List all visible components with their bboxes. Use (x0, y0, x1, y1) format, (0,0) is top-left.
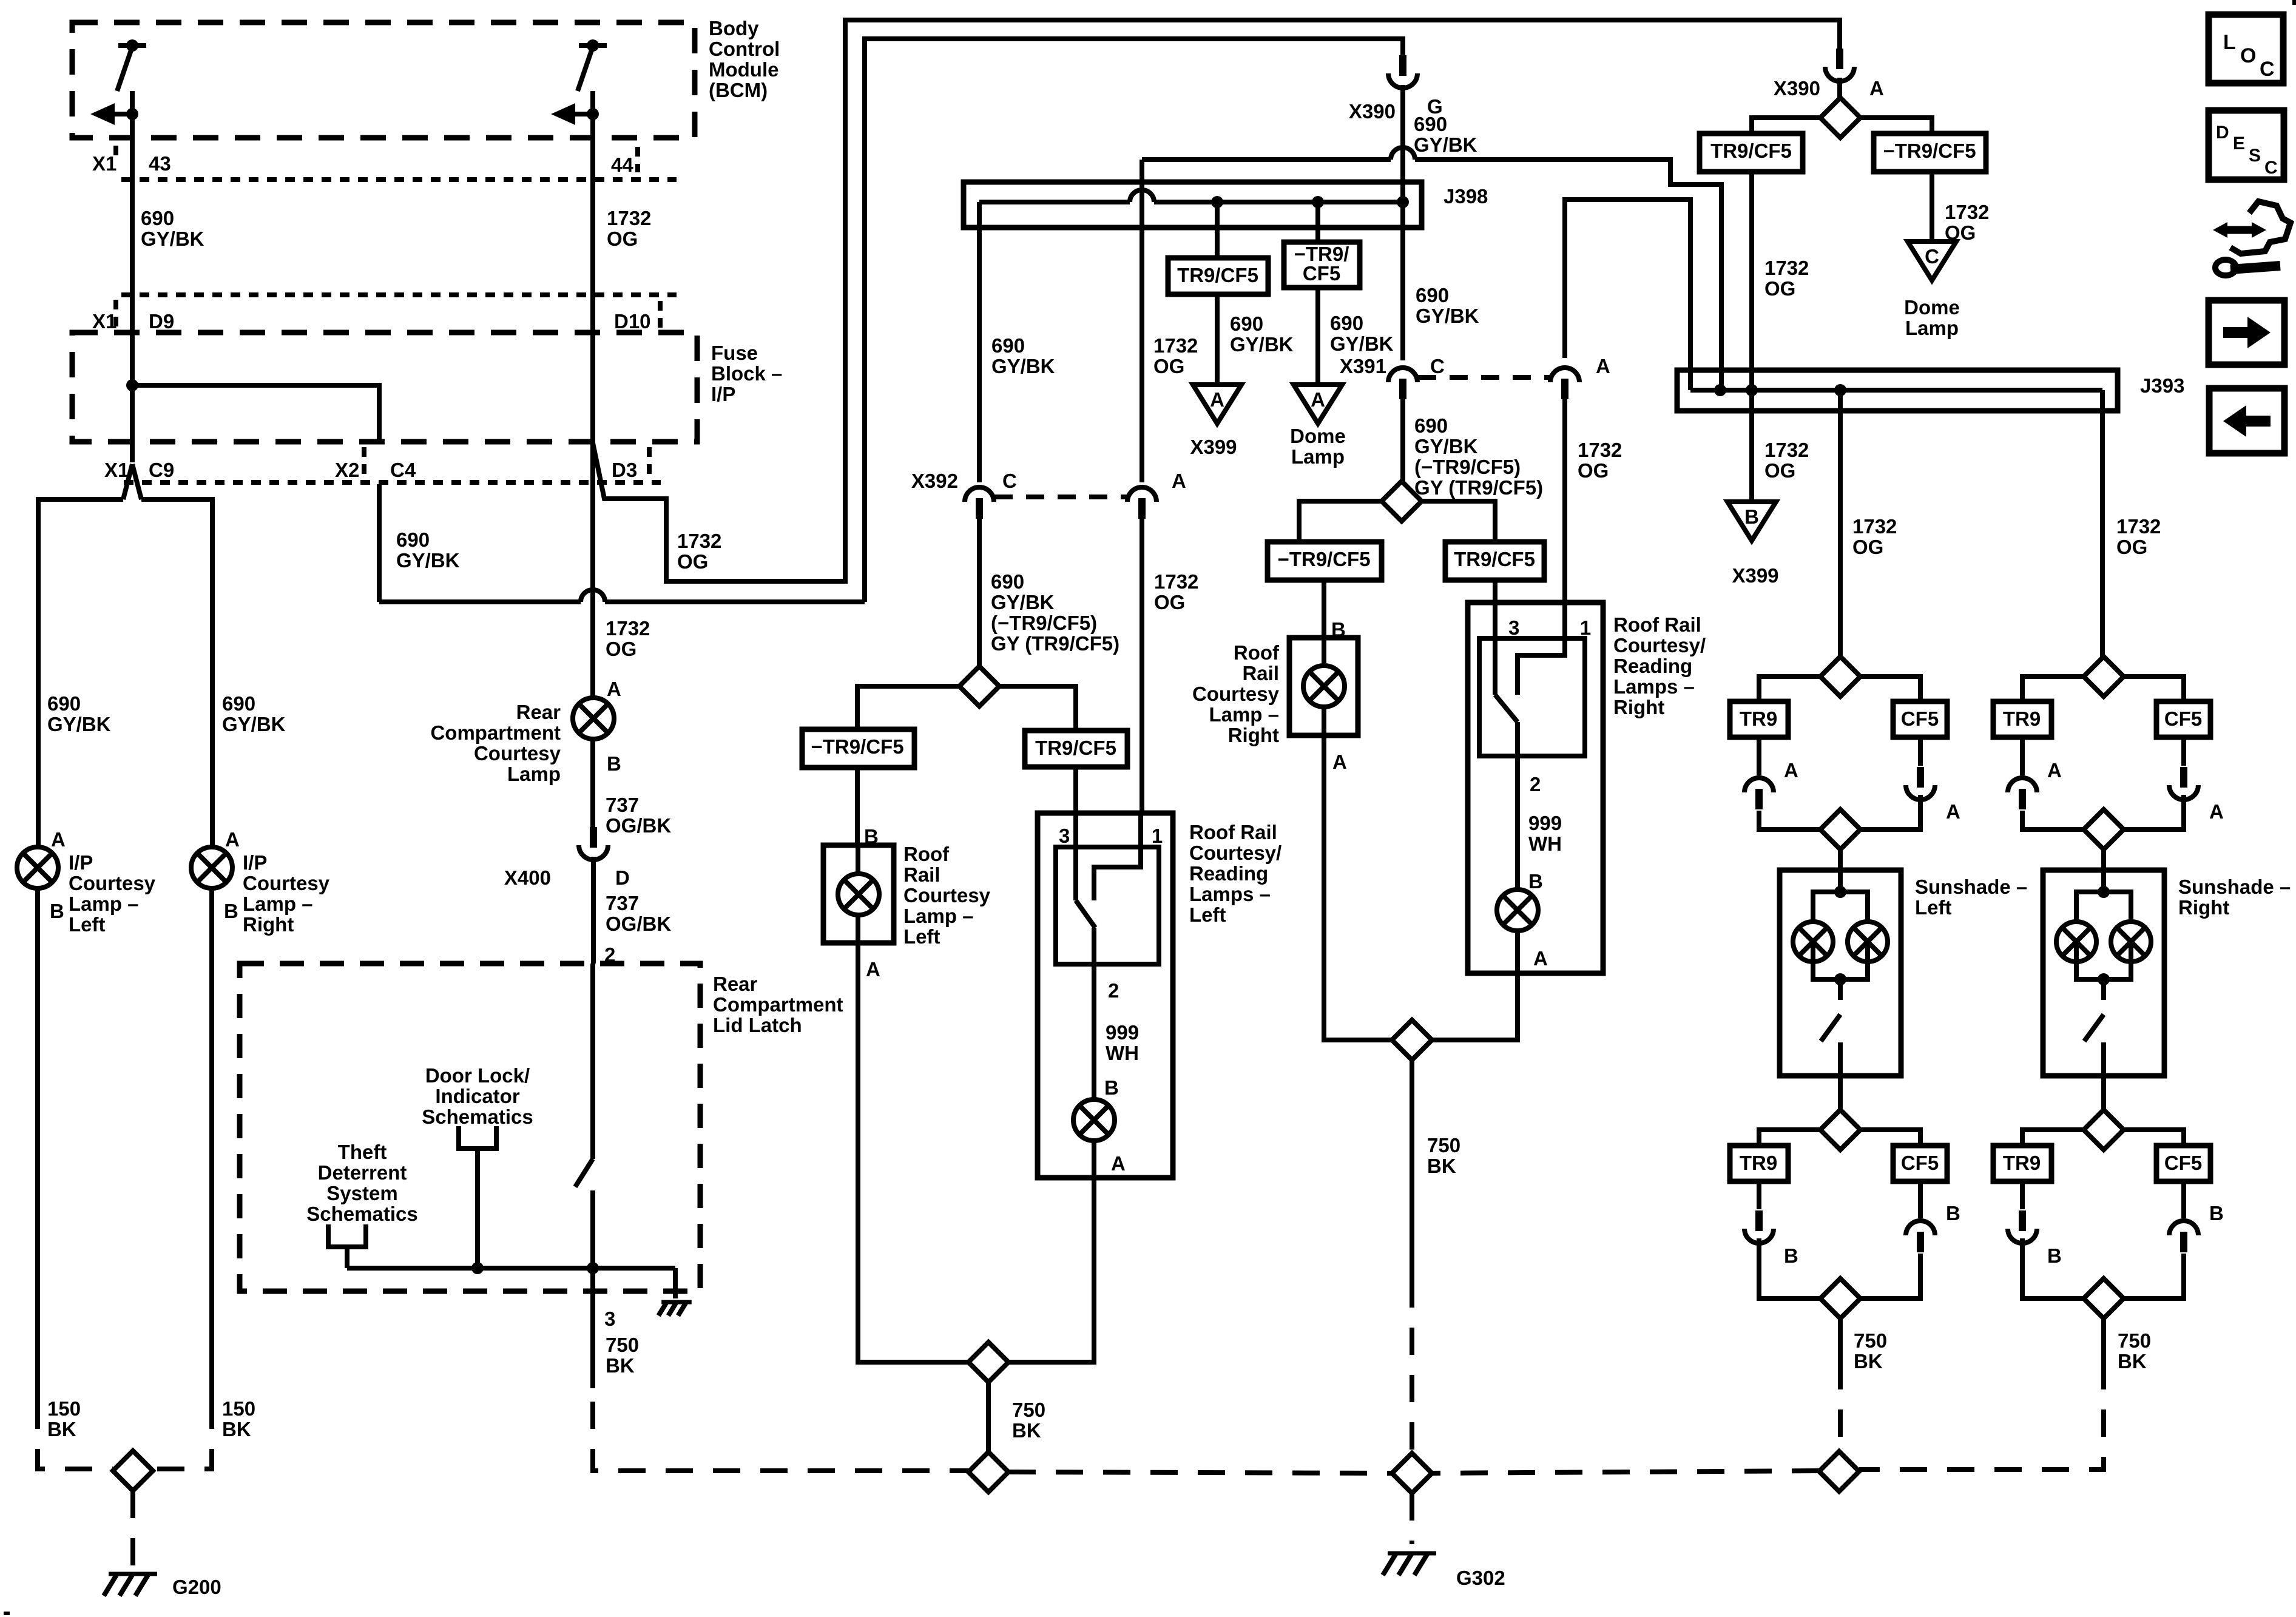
svg-text:OG: OG (1764, 277, 1795, 300)
inner switch box right (1479, 638, 1585, 756)
svg-text:750: 750 (1012, 1399, 1045, 1421)
wire 690 GY/BK BCM 43 to fuse block (130, 146, 135, 333)
TR9/CF5 drop from J398 (1215, 202, 1220, 258)
wire -TR9/CF5 to roof rail courtesy lamp right (1322, 580, 1326, 638)
splice diamond above sunshade left (1820, 809, 1860, 849)
pin wires into box (1493, 580, 1497, 603)
switch blade left box (1076, 900, 1095, 928)
svg-text:A: A (1172, 470, 1186, 492)
svg-text:L: L (2223, 31, 2236, 54)
svg-text:TR9/CF5: TR9/CF5 (1035, 737, 1116, 759)
svg-text:Rear: Rear (516, 701, 561, 723)
svg-text:GY/BK: GY/BK (1330, 333, 1394, 355)
svg-text:1732: 1732 (1764, 439, 1809, 461)
svg-text:O: O (2240, 44, 2256, 67)
D3 branch 1732 OG to X390 A riser (593, 20, 1840, 581)
Roof Rail Courtesy/Reading Lamps - Left box (1038, 813, 1173, 1178)
connector X390 G (1399, 55, 1406, 76)
X392 A wire 1732 OG down to reading lamps pin 1 (1140, 519, 1144, 813)
lid latch switch wire (590, 964, 595, 1159)
off-page triangle C dome lamp (1908, 241, 1956, 280)
svg-text:B: B (224, 900, 238, 922)
svg-text:Courtesy: Courtesy (903, 884, 991, 906)
svg-text:A: A (1784, 759, 1798, 781)
svg-text:CF5: CF5 (1901, 1152, 1939, 1174)
svg-text:B: B (2047, 1244, 2062, 1267)
J393 drop to sunshade left (1838, 390, 1843, 657)
lamp output wire (1092, 928, 1096, 1099)
svg-text:Schematics: Schematics (306, 1203, 417, 1225)
connector X400 (590, 827, 597, 848)
connector under TR9 right (2020, 737, 2025, 775)
svg-text:Control: Control (709, 38, 780, 60)
splice diamond sunshade left top (1820, 657, 1860, 697)
svg-text:B: B (1744, 505, 1759, 528)
svg-text:BK: BK (47, 1418, 76, 1440)
connector under TR9 left (1757, 737, 1761, 775)
svg-text:D: D (615, 866, 630, 889)
wire C4 690 GY/BK down and right (377, 484, 382, 602)
svg-text:1: 1 (1580, 616, 1591, 639)
svg-text:690: 690 (47, 692, 81, 715)
connector under lower CF5 left (1918, 1181, 1923, 1218)
svg-text:B: B (1104, 1076, 1119, 1099)
svg-text:BK: BK (222, 1418, 251, 1440)
wire TR9/CF5 down to reading lamps pin 3 (1073, 767, 1078, 813)
svg-text:Right: Right (2178, 896, 2229, 919)
splice diamond left circuit (959, 666, 999, 706)
svg-text:GY/BK: GY/BK (1414, 435, 1478, 457)
svg-text:TR9: TR9 (1740, 1152, 1777, 1174)
Roof Rail Courtesy/Reading Lamps - Right box (1468, 603, 1603, 973)
branch to -TR9/CF5 (1860, 118, 1932, 133)
lamp roof rail reading right (1497, 890, 1538, 931)
svg-text:OG: OG (2116, 536, 2147, 558)
fuse block internal wire D10 to D3 (590, 333, 595, 442)
svg-text:A: A (1946, 800, 1960, 823)
svg-text:Schematics: Schematics (422, 1106, 533, 1128)
svg-text:C: C (2260, 58, 2275, 81)
-TR9/CF5 box (left circuit) (802, 729, 914, 768)
svg-text:1732: 1732 (1945, 201, 1989, 223)
svg-text:Lid Latch: Lid Latch (713, 1014, 802, 1036)
connector under lower TR9 left (1757, 1181, 1761, 1209)
svg-text:44: 44 (611, 154, 633, 176)
svg-text:GY/BK: GY/BK (396, 549, 460, 572)
svg-text:CF5: CF5 (2164, 1152, 2202, 1174)
splice diamond sunshade right top (2084, 657, 2124, 697)
wire down to splice diamond right (1432, 973, 1518, 1040)
svg-text:Compartment: Compartment (430, 721, 561, 744)
svg-text:Lamps –: Lamps – (1189, 883, 1271, 905)
svg-text:GY (TR9/CF5): GY (TR9/CF5) (991, 632, 1119, 655)
connector under CF5 left (1918, 737, 1923, 766)
svg-text:A: A (1596, 355, 1610, 377)
CF5 box sunshade right (2156, 701, 2210, 737)
svg-text:OG: OG (677, 550, 708, 573)
svg-text:C: C (1002, 470, 1017, 492)
theft deterrent bracket (328, 1224, 366, 1247)
Body Control Module (BCM) dashed box (72, 22, 695, 138)
svg-text:1732: 1732 (677, 530, 721, 552)
svg-text:B: B (1528, 870, 1543, 893)
svg-text:1732: 1732 (2116, 515, 2161, 538)
Sunshade - Left box (1780, 870, 1901, 1076)
svg-text:X392: X392 (911, 470, 958, 492)
svg-text:Theft: Theft (338, 1141, 387, 1163)
dashed grounds to G200 (38, 1402, 113, 1469)
dashed bus between sunshade diamonds (1432, 1471, 1819, 1473)
ground bus diamond sunshade left (1819, 1451, 1859, 1491)
svg-text:A: A (2209, 800, 2224, 823)
svg-text:Block –: Block – (711, 362, 782, 385)
svg-text:A: A (1311, 388, 1325, 411)
svg-text:TR9/CF5: TR9/CF5 (1177, 264, 1258, 286)
Fuse Block - I/P dashed box (72, 333, 697, 442)
svg-text:C9: C9 (149, 459, 174, 481)
svg-text:1732: 1732 (1764, 257, 1809, 279)
svg-text:1732: 1732 (606, 617, 650, 640)
svg-text:Rear: Rear (713, 973, 758, 995)
svg-text:A: A (607, 678, 621, 700)
svg-text:Right: Right (1228, 724, 1279, 746)
svg-text:J398: J398 (1443, 185, 1488, 208)
svg-text:System: System (326, 1182, 397, 1204)
lamp rear compartment courtesy (573, 698, 614, 739)
svg-text:Courtesy/: Courtesy/ (1613, 634, 1706, 657)
svg-text:1732: 1732 (607, 207, 651, 229)
X392 dashed link (994, 495, 1127, 499)
svg-text:1732: 1732 (1578, 439, 1622, 461)
svg-text:690: 690 (222, 692, 255, 715)
TR9 box lower left (1730, 1146, 1788, 1181)
svg-text:750: 750 (606, 1334, 639, 1356)
svg-text:Left: Left (1189, 903, 1226, 926)
splice diamond right circuit (1382, 481, 1422, 521)
svg-text:C: C (1925, 245, 1939, 268)
svg-text:43: 43 (149, 152, 171, 175)
svg-text:690: 690 (1416, 284, 1449, 306)
svg-text:Lamp –: Lamp – (1209, 703, 1279, 726)
J398 splice pack box (964, 182, 1422, 228)
svg-text:Reading: Reading (1189, 862, 1268, 885)
svg-text:B: B (50, 900, 64, 922)
svg-text:X390: X390 (1349, 100, 1396, 123)
svg-text:1732: 1732 (1153, 334, 1198, 357)
svg-text:−TR9/CF5: −TR9/CF5 (1883, 140, 1976, 162)
svg-text:150: 150 (222, 1397, 255, 1420)
sunshade right switch blade (2084, 1014, 2104, 1041)
svg-text:Lamp –: Lamp – (69, 893, 139, 915)
TR9/CF5 box (top right) (1700, 133, 1803, 172)
LOC sidebar box (2209, 15, 2283, 83)
svg-text:Left: Left (69, 913, 106, 936)
svg-text:690: 690 (991, 334, 1025, 357)
svg-text:X391: X391 (1340, 355, 1386, 377)
svg-text:BK: BK (606, 1354, 635, 1377)
off-page triangle A dome lamp (1294, 385, 1342, 424)
svg-text:Body: Body (709, 17, 759, 39)
svg-text:Courtesy: Courtesy (474, 742, 561, 765)
wire lamp A down to splice (1324, 735, 1392, 1040)
arrow into BCM S1 (112, 112, 132, 116)
svg-text:Reading: Reading (1613, 655, 1692, 677)
svg-text:750: 750 (1854, 1329, 1887, 1352)
svg-text:BK: BK (2118, 1350, 2147, 1372)
svg-text:GY/BK: GY/BK (141, 228, 204, 250)
TR9/CF5 box (right circuit) (1445, 542, 1544, 580)
branch to TR9/CF5 (left) (999, 686, 1076, 731)
svg-text:Module: Module (709, 58, 778, 81)
svg-text:OG: OG (1578, 459, 1609, 482)
connector under lower TR9 right (2020, 1181, 2025, 1209)
J398 bus line (979, 200, 1130, 204)
svg-text:Fuse: Fuse (711, 342, 758, 364)
dashed drop to ground bus (593, 1402, 968, 1471)
svg-text:Roof: Roof (1234, 641, 1280, 664)
svg-text:TR9: TR9 (2003, 707, 2041, 730)
splice diamond 750 BK sunshade left (1820, 1278, 1860, 1318)
svg-text:Left: Left (1915, 896, 1952, 919)
branch to TR9/CF5 (1421, 501, 1495, 542)
svg-text:D3: D3 (612, 459, 637, 481)
svg-text:Rail: Rail (1242, 662, 1279, 684)
-TR9/CF5 box (right circuit) (1268, 542, 1382, 580)
svg-text:Right: Right (243, 913, 294, 936)
-TR9/CF5 box (under J398) (1284, 242, 1360, 288)
BCM switch S2 (pin 44 driver) (579, 43, 607, 48)
pin3 wire (1073, 813, 1078, 900)
off-page triangle B X399 (1727, 502, 1776, 541)
svg-text:1732: 1732 (1852, 515, 1897, 538)
svg-text:(−TR9/CF5): (−TR9/CF5) (991, 612, 1097, 634)
J393 right end drop to sunshade right (2100, 390, 2105, 657)
svg-text:TR9/CF5: TR9/CF5 (1710, 140, 1792, 162)
pin3 wire right (1493, 603, 1497, 695)
X391 C wire down to splice (1400, 399, 1405, 481)
svg-text:Compartment: Compartment (713, 993, 843, 1016)
J398 drop to X392 C (977, 202, 982, 482)
svg-text:Left: Left (903, 925, 940, 948)
lamp roof rail courtesy left (838, 874, 879, 915)
dashed ground run sunshade right (1859, 1362, 2104, 1470)
svg-text:690: 690 (396, 528, 430, 551)
svg-text:Courtesy: Courtesy (69, 872, 156, 894)
lamp output wire right (1515, 722, 1520, 890)
TR9 box sunshade left (1730, 701, 1788, 737)
forward arrow sidebar box (2209, 300, 2284, 365)
svg-text:690: 690 (1414, 414, 1448, 437)
svg-text:690: 690 (991, 570, 1024, 593)
page corner marks (2292, 0, 2296, 5)
back arrow sidebar box (2209, 388, 2284, 453)
door lock bracket (459, 1126, 496, 1149)
svg-text:(BCM): (BCM) (709, 79, 768, 101)
svg-text:B: B (1784, 1244, 1798, 1267)
off-page triangle A X399 (1193, 385, 1241, 424)
svg-text:Right: Right (1613, 696, 1664, 718)
svg-text:GY/BK: GY/BK (991, 591, 1055, 613)
svg-text:Roof: Roof (903, 843, 950, 865)
svg-text:GY/BK: GY/BK (222, 713, 286, 735)
svg-text:X1: X1 (92, 310, 116, 333)
svg-text:Dome: Dome (1290, 425, 1346, 447)
svg-text:690: 690 (1230, 312, 1263, 335)
svg-text:S: S (2249, 146, 2261, 166)
svg-text:G200: G200 (172, 1576, 221, 1598)
svg-text:X399: X399 (1190, 436, 1237, 458)
svg-text:Lamp –: Lamp – (903, 905, 974, 927)
svg-text:999: 999 (1106, 1021, 1139, 1044)
BCM switch S1 (pin 43 driver) (118, 43, 146, 48)
svg-text:3: 3 (604, 1308, 615, 1330)
X399 B drop from J393 (1749, 390, 1754, 502)
splice diamond above sunshade right (2084, 809, 2124, 849)
splice diamond under X390 A (1820, 98, 1860, 138)
-TR9/CF5 drop from J398 (1315, 202, 1320, 242)
svg-text:WH: WH (1106, 1042, 1139, 1064)
splice diamond 750 BK sunshade right (2084, 1278, 2124, 1318)
X392 C wire 690 GY/BK down to splice (977, 519, 982, 666)
svg-text:Courtesy/: Courtesy/ (1189, 842, 1281, 864)
wire 1732 OG BCM 44 to fuse block (590, 146, 595, 333)
svg-text:D9: D9 (149, 310, 174, 333)
svg-text:BK: BK (1427, 1155, 1456, 1177)
svg-text:Door Lock/: Door Lock/ (425, 1064, 530, 1087)
fuse block branch to C4 (132, 385, 379, 442)
Roof Rail Courtesy Lamp - Left box (823, 845, 894, 943)
svg-text:OG: OG (1764, 459, 1795, 482)
CF5 box sunshade left (1893, 701, 1947, 737)
svg-text:(−TR9/CF5): (−TR9/CF5) (1414, 456, 1521, 478)
svg-text:750: 750 (1427, 1134, 1460, 1156)
svg-text:X2: X2 (335, 459, 359, 481)
splice diamond 750 BK right (1392, 1020, 1432, 1060)
svg-text:X390: X390 (1774, 77, 1820, 100)
svg-text:X1: X1 (92, 152, 116, 175)
svg-text:Roof Rail: Roof Rail (1189, 821, 1277, 843)
svg-text:Lamp: Lamp (1905, 317, 1959, 339)
CF5 box lower right (2156, 1146, 2210, 1181)
svg-text:CF5: CF5 (1303, 262, 1340, 285)
svg-text:X400: X400 (504, 866, 551, 889)
svg-text:X399: X399 (1732, 564, 1778, 587)
svg-text:OG/BK: OG/BK (606, 913, 671, 935)
svg-text:I/P: I/P (69, 851, 93, 874)
branch to -TR9/CF5 (left) (857, 686, 960, 729)
svg-text:B: B (2209, 1202, 2224, 1224)
svg-text:Lamp –: Lamp – (243, 893, 313, 915)
Roof Rail Courtesy Lamp - Right box (1289, 638, 1358, 735)
svg-text:Indicator: Indicator (435, 1085, 520, 1107)
pin1 hook right (1518, 603, 1565, 695)
internal ground stub (673, 1268, 678, 1298)
fuse block internal wire D9 to C9 (130, 333, 135, 462)
J393 splice pack box (1677, 370, 2118, 411)
svg-text:A: A (225, 828, 240, 851)
svg-text:OG: OG (1153, 355, 1184, 377)
svg-text:C: C (1430, 355, 1445, 377)
svg-text:I/P: I/P (711, 383, 735, 405)
-TR9/CF5 box (top right) (1874, 133, 1986, 172)
connector under CF5 right (2181, 737, 2186, 766)
svg-text:999: 999 (1528, 812, 1562, 834)
wire down to dome lamp triangle (1930, 172, 1934, 241)
svg-text:2: 2 (1530, 773, 1541, 795)
TR9/CF5 box (under J398) (1168, 258, 1268, 294)
svg-text:150: 150 (47, 1397, 81, 1420)
harness repair icon (2221, 226, 2258, 234)
arrow into BCM S2 (573, 112, 593, 116)
ground G302 (1388, 1551, 1436, 1556)
sunshade left internal lamps (1834, 886, 1846, 898)
svg-text:C: C (2264, 158, 2278, 178)
svg-text:690: 690 (1414, 113, 1447, 135)
X391 A wire 1732 OG down to reading lamps right pin 1 (1562, 399, 1567, 603)
svg-text:BK: BK (1854, 1350, 1883, 1372)
svg-text:Lamps –: Lamps – (1613, 675, 1695, 698)
svg-text:A: A (1533, 947, 1548, 970)
branch to -TR9/CF5 (1299, 501, 1382, 542)
svg-text:737: 737 (606, 794, 639, 816)
svg-text:690: 690 (1330, 312, 1363, 334)
svg-text:WH: WH (1528, 832, 1562, 855)
svg-text:A: A (1210, 388, 1224, 411)
svg-text:GY/BK: GY/BK (1416, 305, 1479, 327)
ground bus diamond left (968, 1452, 1008, 1492)
svg-text:G302: G302 (1456, 1567, 1505, 1589)
svg-text:1732: 1732 (1154, 570, 1198, 593)
svg-text:X1: X1 (104, 459, 129, 481)
inner switch box left (1056, 847, 1159, 964)
svg-text:A: A (1111, 1152, 1126, 1175)
DESC sidebar box (2209, 110, 2284, 180)
C9 V-split to I/P courtesy lamps (123, 464, 132, 499)
branch to TR9/CF5 (dome lamp feed) (1752, 118, 1821, 133)
svg-text:750: 750 (2118, 1329, 2151, 1352)
sunshade right internal lamps (2098, 886, 2110, 898)
svg-text:Deterrent: Deterrent (318, 1161, 407, 1184)
svg-text:Sunshade –: Sunshade – (1915, 876, 2027, 898)
svg-text:TR9: TR9 (2003, 1152, 2041, 1174)
D3 wire 1732 OG straight down to rear compartment lamp (590, 442, 595, 698)
lamp roof rail courtesy right (1303, 666, 1345, 707)
splice diamond below sunshade left (1838, 1076, 1843, 1110)
lid latch switch blade (575, 1159, 593, 1187)
X391 A feed from J393: up and over (1565, 200, 1690, 390)
svg-text:B: B (607, 752, 621, 775)
connector X392 A (1127, 487, 1156, 502)
svg-text:Courtesy: Courtesy (243, 872, 330, 894)
svg-text:D10: D10 (614, 310, 651, 333)
wire TR9/CF5 down to J393 (1749, 172, 1754, 390)
svg-text:690: 690 (141, 207, 174, 229)
X390 G wire into J398 and down to X391 C (1400, 182, 1405, 202)
svg-text:2: 2 (1108, 979, 1119, 1002)
pin1 hook (1094, 813, 1141, 900)
svg-text:I/P: I/P (243, 851, 267, 874)
svg-text:Lamp: Lamp (507, 763, 561, 785)
wire TR9/CF5 down to reading lamps right pin 3 (1493, 580, 1497, 603)
svg-text:A: A (1869, 77, 1884, 100)
svg-text:GY/BK: GY/BK (991, 355, 1055, 377)
ground junction diamond G200 (113, 1451, 153, 1491)
svg-text:Roof Rail: Roof Rail (1613, 613, 1701, 636)
svg-text:GY (TR9/CF5): GY (TR9/CF5) (1414, 476, 1543, 499)
svg-text:1: 1 (1152, 825, 1163, 847)
svg-text:C4: C4 (390, 459, 416, 481)
C4 wire horizontal run to X390 G riser (379, 599, 581, 604)
